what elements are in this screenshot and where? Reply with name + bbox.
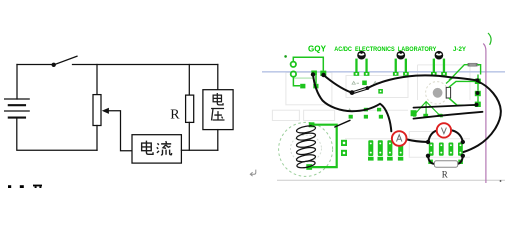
resistor R body (186, 95, 194, 122)
label 电流 (current) in ammeter box (142, 141, 153, 155)
meter V (437, 123, 451, 137)
svg-text:R: R (442, 169, 448, 179)
faint module outlines (272, 65, 470, 158)
wire ammeter to voltmeter bottom (181, 149, 217, 151)
battery binding post 2 (393, 51, 409, 76)
wire R right hook (458, 156, 463, 164)
terminal module top-left (284, 55, 326, 88)
meter A (392, 131, 407, 146)
right pad column (475, 75, 481, 108)
mid-row pads (349, 108, 443, 119)
svg-text:J-2Y: J-2Y (453, 47, 466, 53)
coil unit (279, 122, 347, 176)
potentiometer body (93, 95, 101, 126)
wire tent lower (414, 112, 483, 119)
wire potentiometer bottom lead (96, 126, 98, 151)
trailing period (500, 180, 502, 182)
terminal ring 1 (291, 62, 296, 67)
switch S junction dot (52, 63, 56, 67)
wire junction dots (311, 72, 480, 158)
stray lead (335, 120, 350, 127)
wire R left hook (428, 156, 434, 164)
bottom-left cropped caption glyph tops (8, 185, 42, 188)
bottom faint edge of picture (277, 179, 505, 181)
fuse (449, 63, 481, 80)
wire battery bottom lead (17, 119, 97, 151)
wire right big loop to voltmeter (464, 82, 501, 153)
wire resistor R bottom lead (188, 122, 190, 150)
green tent stand (415, 102, 439, 115)
word paragraph return mark (250, 170, 256, 177)
knife switch lever open (352, 87, 368, 94)
svg-text:R: R (170, 108, 180, 123)
switch S blade (open) (56, 56, 78, 64)
battery cells (5, 99, 30, 118)
purple border line (483, 44, 486, 184)
wire ammeter to voltmeter (407, 139, 428, 142)
resistor R on board (434, 161, 457, 180)
battery binding post 3 (431, 51, 447, 76)
faint green ledge (294, 77, 313, 79)
pin dot (284, 55, 287, 58)
wire voltmeter top lead (217, 65, 219, 90)
green stem from ring2 (293, 77, 300, 86)
wire dot2 to switch (324, 75, 351, 92)
voltmeter module strips (428, 143, 463, 165)
wire voltmeter left hook (429, 131, 438, 142)
contact pad b (313, 84, 318, 89)
wire wiper to ammeter box (109, 111, 133, 151)
svg-text:AC/DC ELECTRONICS LABORATORY: AC/DC ELECTRONICS LABORATORY (334, 47, 436, 53)
label 电压 (voltage) in voltmeter box (213, 93, 223, 105)
battery binding post 1 (354, 51, 370, 76)
lamp (426, 77, 477, 106)
horizontal light blue grid line (262, 71, 505, 73)
wire resistor R top lead (188, 65, 190, 96)
terminal ring 2 (291, 71, 296, 76)
wire top rail right segment (73, 64, 218, 66)
green wire from ring1 to pad (293, 57, 323, 70)
wire voltmeter bottom lead (217, 130, 219, 151)
knife switch module pads (352, 81, 383, 94)
wire tent upper (414, 105, 476, 108)
riser pad b to pad with wire dot 1 (315, 75, 317, 84)
ammeter module strips (368, 140, 403, 160)
black hookup wires (313, 75, 501, 164)
wire switch to lamp pads (369, 75, 476, 87)
wire potentiometer top lead (96, 65, 98, 95)
ammeter box (132, 135, 181, 163)
svg-text:GQY: GQY (308, 44, 326, 54)
contact pad a (300, 84, 305, 89)
wire battery top lead (16, 65, 18, 100)
potentiometer wiper arrow (102, 108, 109, 114)
pad with wire dot 2 (320, 71, 326, 76)
wire voltmeter right hook (451, 130, 463, 141)
wire top rail left segment (17, 64, 52, 66)
pad with wire dot 1 (311, 71, 317, 75)
wire dot1 to ammeter A (313, 75, 391, 132)
voltmeter box (203, 90, 233, 130)
green curl top of border (488, 33, 491, 45)
